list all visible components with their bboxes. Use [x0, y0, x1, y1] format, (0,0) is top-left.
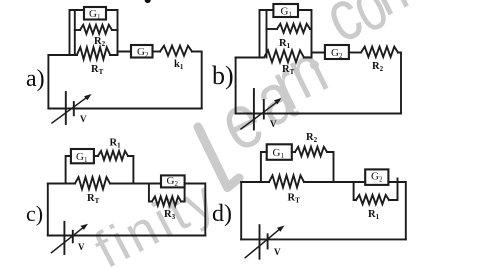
svg-text:V: V	[270, 119, 277, 129]
svg-text:a): a)	[26, 66, 45, 92]
svg-text:b): b)	[212, 61, 234, 90]
svg-text:c): c)	[26, 201, 43, 226]
svg-text:V: V	[78, 242, 85, 252]
svg-text:d): d)	[212, 201, 232, 227]
svg-text:V: V	[80, 114, 87, 124]
svg-text:V: V	[274, 247, 281, 257]
